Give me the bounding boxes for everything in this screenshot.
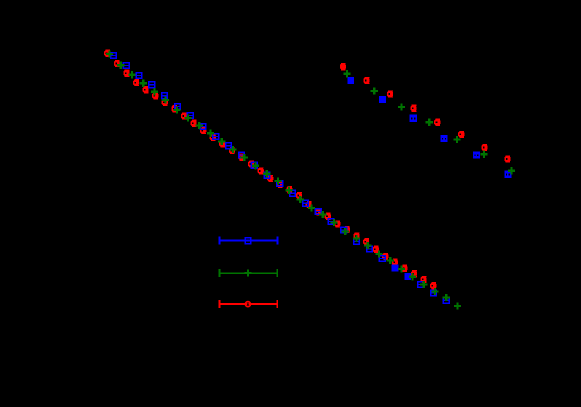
green series branch A point 18: [297, 196, 304, 203]
red series branch A point 1: [104, 50, 110, 57]
red series branch A point 2: [114, 60, 120, 67]
red series branch A point 6: [152, 92, 158, 99]
green series branch A point 2: [117, 62, 124, 69]
red series branch B point 8: [504, 155, 510, 162]
green series branch A point 32: [454, 302, 461, 309]
green series branch A point 14: [252, 162, 259, 169]
green series branch A point 25: [375, 251, 382, 258]
green series branch A point 10: [207, 130, 214, 137]
green series branch A point 7: [173, 107, 180, 114]
legend blue sample line: [219, 237, 279, 245]
green series branch A point 24: [364, 242, 371, 249]
red series branch A point 22: [306, 201, 312, 208]
green series branch A point 15: [263, 170, 270, 177]
red series branch A point 15: [238, 154, 244, 161]
legend red sample line: [219, 300, 278, 308]
blue series branch A point 14: [276, 180, 283, 187]
green series branch A point 16: [274, 177, 281, 184]
blue series branch B point 6: [504, 171, 511, 178]
red series branch A point 20: [286, 186, 292, 193]
blue series branch A point 2: [123, 62, 130, 69]
green series branch A point 13: [241, 154, 248, 161]
red series branch A point 16: [248, 160, 254, 167]
blue series branch A point 21: [366, 246, 373, 253]
blue series branch A point 7: [187, 112, 194, 119]
green series branch A point 6: [162, 96, 169, 103]
red series branch A point 14: [229, 147, 235, 154]
blue series branch A point 17: [315, 208, 322, 215]
blue series branch B point 5: [473, 152, 480, 159]
green series branch A point 5: [151, 88, 158, 95]
blue series branch A point 11: [238, 152, 245, 159]
green series branch A point 20: [319, 211, 326, 218]
blue series branch A point 25: [417, 281, 424, 288]
blue series branch B point 1: [347, 77, 354, 84]
red series branch A point 8: [171, 105, 177, 112]
red series branch B point 6: [458, 131, 464, 138]
green series branch B point 3: [398, 104, 405, 111]
green series branch B point 4: [426, 119, 433, 126]
green series branch A point 3: [128, 71, 135, 78]
blue series branch A point 13: [263, 172, 270, 179]
blue series branch A point 4: [148, 81, 155, 88]
red series branch A point 24: [325, 213, 331, 220]
red series branch B point 4: [410, 105, 416, 112]
green series branch A point 4: [140, 80, 147, 87]
green series branch A point 29: [420, 281, 427, 288]
red series branch A point 5: [143, 86, 149, 93]
red series branch A point 33: [411, 270, 417, 277]
green series branch A point 17: [286, 187, 293, 194]
red series branch A point 4: [133, 79, 139, 86]
red series branch A point 13: [219, 140, 225, 147]
blue series branch A point 18: [327, 218, 334, 225]
green series branch B point 5: [454, 136, 461, 143]
red series branch A point 28: [363, 238, 369, 245]
red series branch A point 32: [401, 265, 407, 272]
green series branch A point 26: [387, 257, 394, 264]
green series branch A point 23: [353, 235, 360, 242]
blue series branch A point 9: [212, 133, 219, 140]
blue series branch A point 24: [404, 273, 411, 280]
red series branch A point 29: [373, 246, 379, 253]
blue series branch A point 5: [161, 92, 168, 99]
blue series branch A point 1: [110, 52, 117, 59]
green series branch A point 22: [342, 228, 349, 235]
green series branch A point 28: [409, 273, 416, 280]
green series branch A point 9: [196, 122, 203, 129]
red series branch A point 12: [210, 134, 216, 141]
red series branch B point 7: [481, 144, 487, 151]
red series branch A point 18: [267, 175, 273, 182]
green series branch B point 6: [480, 151, 487, 158]
red series branch A point 25: [334, 220, 340, 227]
legend green sample line: [219, 269, 278, 277]
green series branch A point 12: [229, 146, 236, 153]
blue series branch A point 12: [251, 162, 258, 169]
red series branch B point 1: [340, 63, 346, 70]
red series branch A point 10: [191, 120, 197, 127]
blue series branch A point 23: [392, 264, 399, 271]
red series branch B point 2: [363, 77, 369, 84]
red series branch A point 35: [430, 282, 436, 289]
red series branch A point 3: [123, 70, 129, 77]
blue series branch A point 19: [340, 226, 347, 233]
green series branch A point 11: [218, 138, 225, 145]
red series branch B point 5: [434, 119, 440, 126]
blue series branch A point 22: [379, 255, 386, 262]
red series branch A point 17: [258, 167, 264, 174]
green series branch B point 1: [343, 70, 350, 77]
red series branch A point 21: [296, 192, 302, 199]
green series branch A point 27: [398, 265, 405, 272]
blue series branch A point 27: [443, 297, 450, 304]
red series branch A point 34: [421, 276, 427, 283]
green series branch A point 19: [308, 204, 315, 211]
blue series branch A point 15: [289, 190, 296, 197]
blue series branch A point 20: [353, 238, 360, 245]
red series branch A point 27: [353, 232, 359, 239]
green series branch A point 8: [185, 114, 192, 121]
red series branch A point 19: [277, 181, 283, 188]
blue series branch A point 3: [135, 72, 142, 79]
blue series branch B point 2: [379, 96, 386, 103]
red series branch A point 31: [392, 259, 398, 266]
green series branch A point 30: [432, 288, 439, 295]
green series branch A point 1: [106, 51, 113, 58]
blue series branch B point 3: [410, 115, 417, 122]
blue series branch A point 16: [302, 200, 309, 207]
blue series branch A point 26: [430, 290, 437, 297]
green series branch B point 2: [371, 87, 378, 94]
blue series branch B point 4: [440, 135, 447, 142]
blue series branch A point 8: [199, 123, 206, 130]
red series branch A point 30: [382, 253, 388, 260]
green series branch A point 31: [443, 294, 450, 301]
blue series branch A point 6: [174, 103, 181, 110]
red series branch A point 7: [162, 99, 168, 106]
green series branch A point 21: [330, 219, 337, 226]
blue series branch A point 10: [225, 142, 232, 149]
red series branch A point 9: [181, 112, 187, 119]
red series branch A point 26: [344, 226, 350, 233]
green series branch B point 7: [508, 167, 515, 174]
red series branch B point 3: [387, 90, 393, 97]
red series branch A point 11: [200, 127, 206, 134]
red series branch A point 23: [315, 209, 321, 216]
